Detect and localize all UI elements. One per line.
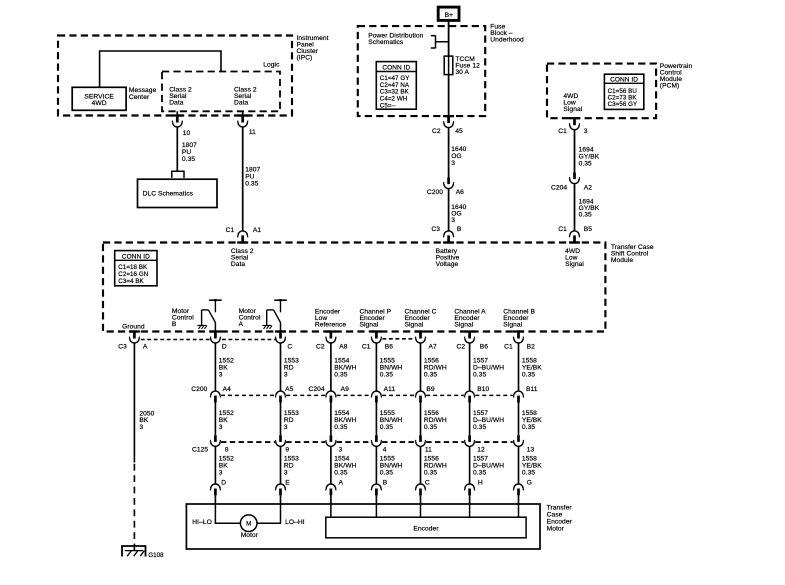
pin labels C2 / A8 (316, 343, 348, 350)
svg-text:C3: C3 (118, 343, 127, 350)
svg-text:0.35: 0.35 (424, 469, 437, 476)
svg-text:DLC Schematics: DLC Schematics (143, 191, 194, 198)
svg-text:B+: B+ (445, 12, 454, 19)
svg-text:A9: A9 (341, 386, 349, 393)
box: DLC Schematics (138, 179, 218, 207)
svg-text:A11: A11 (384, 386, 396, 393)
wire: circuit 1552 segment 3 (motB) (214, 446, 216, 484)
svg-text:Center: Center (129, 94, 150, 101)
node label: Channel A Encoder Signal (454, 308, 486, 328)
svg-text:D: D (221, 479, 226, 486)
label: G108 (148, 552, 164, 559)
wire label: 1552 BK 3 (219, 410, 234, 431)
svg-text:Voltage: Voltage (436, 261, 459, 268)
wire label: 1640 OG 3 (451, 146, 466, 167)
wire: into transfer case encoder motor (motB) (214, 495, 216, 504)
svg-text:C1: C1 (558, 128, 567, 135)
svg-text:45: 45 (455, 128, 463, 135)
svg-text:C2: C2 (432, 128, 441, 135)
wire: HI-LO branch to motor (215, 504, 240, 523)
svg-text:1555: 1555 (380, 455, 395, 462)
node: Battery Positive Voltage (TCSCM) (436, 248, 460, 268)
svg-text:C3=56 GY: C3=56 GY (608, 101, 638, 108)
svg-text:3: 3 (284, 371, 288, 378)
switch: Motor Control A driver (262, 299, 286, 331)
svg-text:C1: C1 (226, 227, 235, 234)
label: B+ (445, 12, 454, 19)
svg-text:C200: C200 (427, 189, 443, 196)
in-line connector C200 pin A6 (444, 178, 454, 189)
wire: circuit 2050 BK 3 (ground, solid part) (133, 343, 135, 463)
svg-text:D: D (222, 343, 227, 350)
svg-text:1552: 1552 (219, 455, 234, 462)
indicator box: SERVICE 4WD message (72, 87, 126, 110)
svg-text:10: 10 (183, 130, 191, 137)
svg-text:C1: C1 (504, 343, 513, 350)
svg-text:B2: B2 (527, 343, 535, 350)
connector: TCSCM bottom edge pin (chanA) (464, 330, 475, 343)
wire label: 1557 D&#8211;BU/WH 0.35 (473, 410, 504, 431)
wire: circuit 1553 segment 1 (motA) (280, 343, 282, 392)
svg-text:G: G (527, 479, 532, 486)
node: Class 2 Serial Data (right, pin 11) (234, 87, 257, 107)
svg-text:0.35: 0.35 (473, 371, 486, 378)
label: TCCM Fuse 12 30 A (455, 56, 480, 76)
pin labels C200 / A6 (427, 189, 464, 196)
svg-text:Signal: Signal (405, 321, 424, 328)
pin label A7 (429, 343, 437, 350)
wire: Class 2 Serial Data stub to IPC edge (pin 10) (176, 111, 178, 116)
wire label: 1694 GY/BK 0.35 (579, 199, 600, 219)
CONN ID table (PCM) (604, 74, 643, 109)
svg-text:C2: C2 (456, 343, 465, 350)
svg-text:CONN ID: CONN ID (610, 76, 638, 83)
wire: encoder input (chanB) (518, 504, 520, 517)
svg-text:Signal: Signal (565, 261, 584, 268)
pin label D (motor control B) (222, 343, 227, 350)
svg-text:G108: G108 (148, 552, 164, 559)
svg-text:3: 3 (451, 160, 455, 167)
svg-text:B6: B6 (480, 343, 488, 350)
svg-text:OG: OG (451, 153, 461, 160)
box: Encoder (326, 517, 526, 538)
label: Powertrain Control Module (PCM) (660, 63, 693, 90)
svg-text:0.35: 0.35 (380, 371, 393, 378)
svg-text:H: H (478, 479, 483, 486)
connector: encoder motor entry (chanC) (416, 484, 426, 495)
connector: TCSCM bottom edge pin (motA) (275, 330, 286, 343)
svg-text:Signal: Signal (454, 321, 473, 328)
in-line connector C204 pin A2 (570, 173, 580, 184)
svg-text:0.35: 0.35 (522, 424, 535, 431)
wire label: 1557 D&#8211;BU/WH 0.35 (473, 358, 504, 379)
svg-text:1558: 1558 (522, 455, 537, 462)
wire: fuse to fuse block pin 45 (448, 75, 450, 117)
wire label: 1552 BK 3 (219, 455, 234, 476)
svg-text:Logic: Logic (263, 61, 280, 68)
svg-text:C2=16 GN: C2=16 GN (118, 271, 148, 278)
labels: C125 / pin numbers 8 9 3 4 11 12 13 (192, 447, 534, 454)
node label: Motor Control B (172, 308, 194, 328)
svg-text:Data: Data (169, 99, 184, 106)
wire label: 1553 RD 3 (284, 410, 299, 431)
wire: circuit 2050 (ground, dashed part) (133, 464, 135, 552)
label: CONN ID header (fuse block) (382, 64, 410, 71)
svg-text:B10: B10 (477, 386, 489, 393)
svg-text:0.35: 0.35 (473, 424, 486, 431)
svg-text:CONN ID: CONN ID (382, 64, 410, 71)
svg-text:1694: 1694 (579, 146, 594, 153)
wire: circuit 1554 segment 1 (lowref) (330, 343, 332, 392)
svg-text:B: B (172, 321, 177, 328)
wire label: 1553 RD 3 (284, 358, 299, 379)
svg-text:1555: 1555 (380, 358, 395, 365)
pin number 11 (249, 129, 256, 136)
svg-text:Case: Case (547, 512, 563, 519)
module box: Fuse Block - Underhood, dashed outline (358, 26, 485, 116)
svg-text:4WD: 4WD (92, 100, 107, 107)
svg-text:0.35: 0.35 (579, 212, 592, 219)
wire label: 1553 RD 3 (284, 455, 299, 476)
svg-text:B5: B5 (584, 226, 592, 233)
connector: TCSCM bottom edge pin (chanP) (371, 330, 382, 343)
in-line connector C200 (motB) (210, 391, 220, 402)
connector: encoder motor entry (chanA) (465, 484, 475, 495)
wire: circuit 1694 GY/BK 0.35 (lower) (574, 184, 576, 232)
svg-text:B: B (457, 226, 462, 233)
svg-text:M: M (246, 521, 251, 528)
node label: Channel C Encoder Signal (405, 308, 437, 328)
svg-text:1554: 1554 (334, 358, 349, 365)
svg-text:(IPC): (IPC) (297, 55, 313, 62)
svg-text:3: 3 (451, 217, 455, 224)
svg-text:1557: 1557 (473, 358, 488, 365)
pin labels C1 / 3 (558, 128, 588, 135)
svg-text:(PCM): (PCM) (660, 83, 680, 90)
svg-text:0.35: 0.35 (182, 156, 195, 163)
connector: encoder motor entry (lowref) (326, 484, 336, 495)
svg-text:1552: 1552 (219, 358, 234, 365)
connector bracket at DLC Schematics (172, 171, 184, 178)
svg-text:Signal: Signal (360, 321, 379, 328)
svg-text:0.35: 0.35 (424, 371, 437, 378)
svg-text:A4: A4 (223, 386, 231, 393)
connector: encoder motor entry (chanP) (371, 484, 381, 495)
svg-text:Encoder: Encoder (547, 519, 573, 526)
svg-text:0.35: 0.35 (522, 469, 535, 476)
label: Instrument Panel Cluster (IPC) (297, 35, 329, 62)
svg-text:A7: A7 (429, 343, 437, 350)
svg-text:A6: A6 (456, 189, 464, 196)
in-line connector C125 (lowref) (326, 435, 336, 446)
svg-text:0.35: 0.35 (380, 469, 393, 476)
ground G108 symbol (122, 546, 146, 557)
wire label: 1556 RD/WH 0.35 (424, 410, 447, 431)
wire: Class 2 Serial Data stub to IPC edge (pin 11) (242, 111, 244, 116)
connector: TCSCM bottom edge pin (chanC) (415, 330, 426, 343)
in-line connector C125 (chanB) (514, 435, 524, 446)
svg-text:1557: 1557 (473, 455, 488, 462)
svg-text:C1: C1 (362, 343, 371, 350)
label: DLC Schematics (143, 191, 194, 198)
connector: TCSCM bottom edge pin (ground) (129, 330, 140, 343)
node label: Channel B Encoder Signal (503, 308, 535, 328)
label: Logic (263, 61, 280, 68)
module box: Transfer Case Shift Control Module, dashed outline (103, 243, 605, 332)
wire: circuit 1555 segment 2 (chanP) (375, 403, 377, 436)
svg-text:1553: 1553 (284, 455, 299, 462)
svg-text:C125: C125 (192, 447, 208, 454)
wire: circuit 1558 segment 2 (chanB) (518, 403, 520, 436)
wire: circuit 1553 segment 2 (motA) (280, 403, 282, 436)
svg-text:HI–LO: HI–LO (192, 519, 212, 526)
battery feed B+ box (438, 7, 459, 20)
label: Encoder (413, 526, 439, 533)
svg-text:Motor: Motor (241, 532, 259, 539)
svg-text:B11: B11 (526, 386, 538, 393)
svg-text:Signal: Signal (503, 321, 522, 328)
in-line connector C204 (chanC) (416, 391, 426, 402)
wire label: 1556 RD/WH 0.35 (424, 358, 447, 379)
connector row C200/C204 dashed line (221, 394, 513, 396)
wire label: 1554 BK/WH 0.35 (334, 455, 356, 476)
pin labels C1 / B2 (504, 343, 535, 350)
svg-text:A8: A8 (339, 343, 347, 350)
svg-text:3: 3 (219, 469, 223, 476)
logic box (inside IPC), dashed outline (162, 72, 280, 112)
svg-text:Underhood: Underhood (490, 36, 524, 43)
wire label: 1640 OG 3 (451, 204, 466, 224)
node: Class 2 Serial Data (TCSCM) (231, 248, 254, 268)
svg-text:Reference: Reference (315, 321, 347, 328)
svg-text:A: A (239, 321, 244, 328)
connector: TCSCM bottom edge pin (motB) (210, 330, 221, 343)
wire: LO-HI branch to motor (257, 504, 280, 523)
labels: C204 / A9 / A11 / B9 / B10 / B11 (309, 386, 538, 393)
wire: into transfer case encoder motor (lowref) (330, 495, 332, 504)
wire: into transfer case encoder motor (chanA) (469, 495, 471, 504)
wire: encoder input (chanC) (420, 504, 422, 517)
label: CONN ID header (PCM) (610, 76, 638, 83)
connector grouping dash (C3: D-C) (222, 339, 276, 341)
svg-text:C200: C200 (191, 386, 207, 393)
wire: circuit 1555 segment 3 (chanP) (375, 446, 377, 484)
module box: Powertrain Control Module (PCM), dashed outline (547, 64, 656, 119)
svg-text:3: 3 (584, 128, 588, 135)
connector: TCSCM pin B5 (conn C1) (569, 231, 580, 244)
wire label: 1558 YE/BK 0.35 (522, 358, 542, 379)
svg-text:1807: 1807 (182, 142, 197, 149)
wire label: 1558 YE/BK 0.35 (522, 455, 542, 476)
label: Message Center (129, 87, 157, 101)
svg-text:3: 3 (219, 424, 223, 431)
svg-text:1554: 1554 (334, 455, 349, 462)
svg-text:0.35: 0.35 (424, 424, 437, 431)
wire label: 1555 BN/WH 0.35 (380, 455, 403, 476)
svg-text:C: C (425, 479, 430, 486)
svg-text:3: 3 (219, 371, 223, 378)
wire: circuit 1694 GY/BK 0.35 (upper) (574, 130, 576, 173)
wire: circuit 1640 OG 3 (upper) (448, 128, 450, 178)
svg-text:1640: 1640 (451, 146, 466, 153)
svg-text:11: 11 (249, 129, 256, 136)
connector: encoder motor entry (motB) (210, 484, 220, 495)
pin labels C2 / B6 (456, 343, 488, 350)
wire: circuit 1557 segment 2 (chanA) (469, 403, 471, 436)
wire: circuit 1557 segment 3 (chanA) (469, 446, 471, 484)
svg-text:PU: PU (182, 149, 191, 156)
svg-text:Schematics: Schematics (368, 39, 404, 46)
svg-text:C5=--: C5=-- (380, 102, 396, 109)
connector: PCM pin 3 (conn C1) (569, 117, 580, 130)
svg-text:0.35: 0.35 (380, 424, 393, 431)
wire: circuit 1557 segment 1 (chanA) (469, 343, 471, 392)
wire: circuit 1556 segment 3 (chanC) (420, 446, 422, 484)
svg-text:0.35: 0.35 (334, 424, 347, 431)
connector: TCSCM bottom edge pin (lowref) (325, 330, 336, 343)
wire: circuit 1807 PU 0.35 (IPC pin 10 to DLC) (176, 127, 178, 171)
svg-text:A: A (339, 479, 344, 486)
labels: PCM connector ids (608, 88, 638, 108)
wire: B+ to TCCM fuse (448, 20, 450, 56)
off-page reference symbol to Power Distribution (431, 35, 449, 48)
svg-text:C204: C204 (551, 185, 567, 192)
motor M symbol (240, 515, 257, 532)
wire: circuit 1558 segment 1 (chanB) (518, 343, 520, 392)
wire: circuit 1555 segment 1 (chanP) (375, 343, 377, 392)
wire: circuit 1640 OG 3 (lower) (448, 189, 450, 232)
wire label: 1555 BN/WH 0.35 (380, 358, 403, 379)
pin label C (motor control A) (287, 343, 292, 350)
wire: SERVICE 4WD to Logic box (100, 51, 221, 87)
wire: circuit 1558 segment 3 (chanB) (518, 446, 520, 484)
connector: TCSCM pin B (conn C3) (443, 231, 454, 244)
wire: circuit 1556 segment 2 (chanC) (420, 403, 422, 436)
svg-text:B: B (383, 479, 388, 486)
wire: encoder input (chanA) (469, 504, 471, 517)
svg-text:LO–HI: LO–HI (285, 519, 305, 526)
in-line connector C125 (chanA) (465, 435, 475, 446)
wire label: 1557 D&#8211;BU/WH 0.35 (473, 455, 504, 476)
svg-text:A2: A2 (584, 185, 592, 192)
wire: into transfer case encoder motor (chanB) (518, 495, 520, 504)
connector: encoder motor entry (chanB) (514, 484, 524, 495)
wire: into transfer case encoder motor (motA) (280, 495, 282, 504)
label: Transfer Case Encoder Motor (547, 505, 573, 533)
pin labels C2 / 45 (432, 128, 463, 135)
node label: Encoder Low Reference (315, 308, 347, 328)
svg-text:3: 3 (139, 424, 143, 431)
svg-text:B6: B6 (385, 343, 393, 350)
switch: Motor Control B driver (197, 299, 221, 331)
pin labels C1 / B6 (362, 343, 393, 350)
svg-text:8: 8 (225, 447, 229, 454)
svg-text:GY/BK: GY/BK (579, 153, 600, 160)
wire: encoder input (chanP) (375, 504, 377, 517)
node: Class 2 Serial Data (left, pin 10) (169, 87, 192, 107)
pin number 10 (183, 130, 191, 137)
wire: circuit 1553 segment 3 (motA) (280, 446, 282, 484)
svg-text:A5: A5 (285, 386, 293, 393)
in-line connector C200 (motA) (276, 391, 286, 402)
wire: into transfer case encoder motor (chanC) (420, 495, 422, 504)
svg-text:CONN ID: CONN ID (122, 253, 150, 260)
wire: encoder input (lowref) (330, 504, 332, 517)
module box: Instrument Panel Cluster (IPC), dashed outline (58, 36, 292, 116)
connector: TCSCM pin A1 (conn C1) (237, 231, 248, 244)
wire label: 1556 RD/WH 0.35 (424, 455, 447, 476)
connector grouping dash (C3: A-D) (141, 339, 211, 341)
svg-text:Transfer: Transfer (547, 505, 573, 512)
svg-text:12: 12 (477, 447, 485, 454)
label: HI-LO (192, 519, 212, 526)
node label: Motor Control A (239, 308, 261, 328)
wire label: 1558 YE/BK 0.35 (522, 410, 542, 431)
wire label: 2050 BK 3 (139, 410, 154, 431)
label: Fuse Block - Underhood (490, 23, 524, 43)
CONN ID table (fuse block) (376, 62, 416, 110)
wire label: 1554 BK/WH 0.35 (334, 358, 356, 379)
node: 4WD Low Signal (PCM) (563, 93, 582, 113)
wire: into transfer case encoder motor (chanP) (375, 495, 377, 504)
wire label: 1554 BK/WH 0.35 (334, 410, 356, 431)
in-line connector C204 (chanB) (514, 391, 524, 402)
svg-text:A: A (143, 343, 148, 350)
svg-text:0.35: 0.35 (334, 371, 347, 378)
label: Transfer Case Shift Control Module (611, 244, 654, 264)
svg-text:3: 3 (284, 469, 288, 476)
svg-text:1558: 1558 (522, 358, 537, 365)
label: LO-HI (285, 519, 305, 526)
label: Motor (241, 532, 259, 539)
pin labels C1 / A1 (226, 227, 262, 234)
wire: circuit 1554 segment 3 (lowref) (330, 446, 332, 484)
svg-text:C1=18 BK: C1=18 BK (118, 264, 148, 271)
svg-text:0.35: 0.35 (579, 160, 592, 167)
svg-text:Data: Data (231, 261, 246, 268)
node: 4WD Low Signal (TCSCM) (565, 248, 584, 268)
svg-text:Encoder: Encoder (413, 526, 439, 533)
pin labels C204 / A2 (551, 185, 592, 192)
in-line connector C125 (motB) (210, 435, 220, 446)
wire: circuit 1554 segment 2 (lowref) (330, 403, 332, 436)
svg-text:C204: C204 (309, 386, 325, 393)
label: Power Distribution Schematics (368, 33, 423, 47)
fuse TCCM Fuse 12 30 A (444, 56, 453, 75)
svg-text:PU: PU (245, 174, 254, 181)
wire label: 1807 PU 0.35 (182, 142, 197, 163)
svg-text:C3=4 BK: C3=4 BK (118, 278, 144, 285)
svg-text:3: 3 (284, 424, 288, 431)
svg-text:B9: B9 (426, 386, 434, 393)
box: Transfer Case Encoder Motor (186, 504, 540, 549)
node label: Channel P Encoder Signal (360, 308, 392, 328)
label: SERVICE 4WD (84, 93, 114, 107)
svg-text:30 A: 30 A (455, 69, 469, 76)
svg-text:1807: 1807 (245, 166, 260, 173)
pin labels C1 / B5 (558, 226, 592, 233)
svg-text:Module: Module (611, 257, 633, 264)
connector: IPC pin 10 (172, 114, 183, 127)
wire: circuit 1807 PU 0.35 (IPC pin 11 to TCSCM C1/A1) (242, 127, 244, 231)
svg-text:C: C (287, 343, 292, 350)
pin labels C3 / A (ground) (118, 343, 148, 350)
svg-text:9: 9 (285, 447, 289, 454)
svg-text:1553: 1553 (284, 358, 299, 365)
connector: IPC pin 11 (237, 114, 248, 127)
in-line connector C125 (chanP) (371, 435, 381, 446)
labels: C200 / A4 / A5 (191, 386, 293, 393)
